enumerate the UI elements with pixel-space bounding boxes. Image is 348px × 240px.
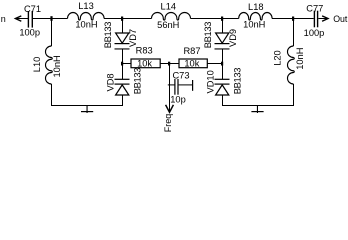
svg-text:100p: 100p [19, 28, 40, 38]
svg-text:10p: 10p [170, 95, 186, 105]
capacitor C71 [28, 11, 33, 28]
svg-text:BB133: BB133 [132, 68, 142, 95]
node Freq junction [168, 62, 170, 66]
svg-text:L10: L10 [32, 57, 42, 73]
capacitor C77 [314, 11, 319, 28]
svg-text:R87: R87 [183, 46, 200, 56]
svg-text:R83: R83 [136, 46, 153, 56]
wire VD9 to midpoint [222, 50, 223, 80]
node D junction [292, 17, 294, 21]
varactor VD9 [215, 33, 230, 50]
inductor L13 [68, 13, 105, 21]
svg-text:C77: C77 [306, 3, 323, 13]
svg-text:10k: 10k [184, 59, 199, 69]
resistor R87 lead right [208, 63, 223, 64]
resistor R83 lead right [161, 63, 170, 64]
inductor L18 [239, 13, 272, 21]
ground bar at C73 [192, 80, 193, 91]
svg-text:10nH: 10nH [295, 48, 305, 70]
svg-text:L13: L13 [78, 1, 94, 11]
wire bottom-left rail [51, 105, 123, 106]
node VD9-R87 junction [221, 62, 223, 66]
node A junction [50, 16, 52, 21]
svg-text:VD8: VD8 [105, 73, 115, 91]
svg-text:100p: 100p [304, 28, 325, 38]
port Out arrow [318, 16, 328, 21]
wire VD7 to midpoint [122, 50, 123, 80]
svg-text:L20: L20 [273, 50, 283, 66]
svg-text:BB133: BB133 [103, 22, 113, 49]
wire node B to VD7 [122, 19, 123, 33]
wire VD10 to rail [222, 95, 223, 105]
inductor L14 [152, 12, 191, 20]
wire L13 to L14 [104, 18, 152, 19]
ground right [251, 106, 263, 113]
wire Freq line down [169, 63, 170, 111]
varactor VD8 [115, 79, 130, 95]
svg-text:VD9: VD9 [228, 29, 238, 47]
svg-text:L18: L18 [248, 2, 264, 12]
wire C73 to ground [179, 84, 193, 85]
wire L18 to C77 [272, 18, 314, 19]
ground left [81, 106, 93, 113]
wire node A down [51, 19, 52, 46]
varactor VD7 [115, 33, 130, 50]
port In arrow [15, 16, 28, 21]
svg-text:10nH: 10nH [243, 20, 265, 30]
svg-text:In: In [0, 14, 6, 24]
wire bottom-right rail [222, 105, 294, 106]
port Freq arrow [166, 105, 174, 113]
node VD7-R83 junction [121, 62, 123, 66]
wire C73 branch [168, 84, 175, 85]
varactor VD10 [215, 79, 230, 95]
svg-text:56nH: 56nH [157, 20, 179, 30]
capacitor C73 [174, 79, 178, 95]
svg-text:10k: 10k [137, 59, 152, 69]
wire L14 to L18 [191, 18, 239, 19]
inductor L10 [46, 46, 53, 84]
wire L10 bottom [51, 84, 52, 105]
svg-text:BB133: BB133 [203, 22, 213, 49]
svg-text:VD10: VD10 [205, 70, 215, 93]
svg-text:L14: L14 [161, 2, 177, 12]
resistor R87 [179, 59, 207, 68]
wire node C to VD9 [222, 19, 223, 33]
wire L20 bottom [293, 84, 294, 105]
svg-text:C73: C73 [172, 70, 189, 80]
resistor R83 lead left [123, 63, 131, 64]
svg-text:10nH: 10nH [75, 20, 97, 30]
node B junction [121, 17, 123, 21]
wire node D down [293, 19, 294, 46]
resistor R83 [131, 59, 160, 68]
svg-text:BB133: BB133 [232, 68, 242, 95]
svg-text:10nH: 10nH [52, 55, 62, 77]
svg-text:Out: Out [333, 14, 348, 24]
wire VD8 to rail [122, 95, 123, 105]
svg-text:Freq: Freq [163, 114, 173, 133]
wire C71 to L13 [33, 18, 68, 19]
node C junction [221, 17, 223, 21]
svg-text:VD7: VD7 [128, 29, 138, 47]
resistor R87 lead left [170, 63, 179, 64]
svg-text:C71: C71 [24, 4, 41, 14]
inductor L20 [288, 46, 295, 84]
